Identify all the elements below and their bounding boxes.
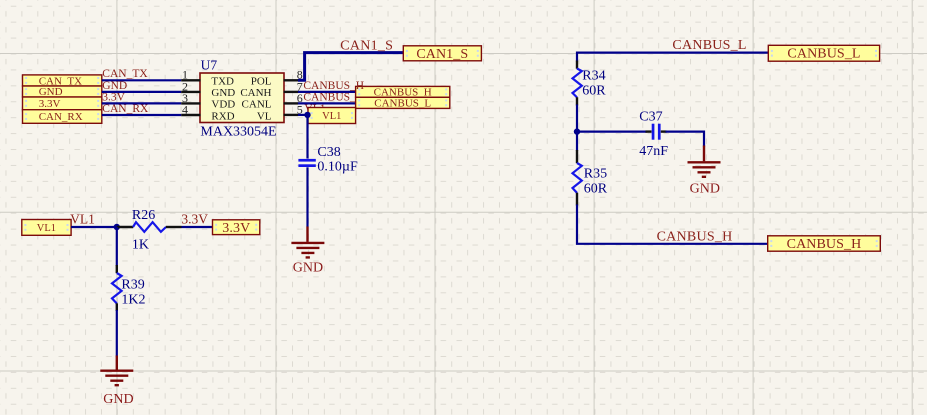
svg-text:CANBUS_L: CANBUS_L [787, 47, 860, 62]
svg-text:3.3V: 3.3V [222, 221, 250, 236]
wire C38 to ground [306, 167, 308, 227]
svg-text:CANBUS_L: CANBUS_L [374, 98, 431, 110]
junction node split [574, 128, 580, 134]
wire R39 to ground [116, 310, 118, 357]
svg-text:60R: 60R [584, 182, 608, 197]
svg-text:R26: R26 [132, 208, 155, 223]
wire R34 to junction [576, 105, 578, 132]
wire junction to R35 [576, 132, 578, 151]
svg-text:3.3V: 3.3V [102, 91, 125, 103]
svg-text:CANL: CANL [242, 99, 272, 111]
port CAN1_S [403, 46, 481, 62]
capacitor C37 [646, 124, 667, 140]
svg-text:VL: VL [257, 110, 272, 122]
svg-text:U7: U7 [201, 58, 218, 73]
wire net GND to pin 2 [102, 91, 181, 93]
port VL1 bottom left [22, 220, 71, 236]
resistor R35 [573, 150, 582, 206]
svg-text:GND: GND [103, 392, 133, 407]
port CAN_RX [23, 110, 102, 124]
port VL1 mid [308, 108, 356, 124]
wire C37 to ground [666, 132, 705, 147]
pin 3 stub VDD [181, 102, 200, 104]
svg-text:MAX33054E: MAX33054E [200, 124, 276, 139]
wire R26 to port 3.3V [182, 226, 213, 228]
wire net CAN_RX to pin 4 [102, 114, 181, 116]
svg-text:1K: 1K [132, 238, 149, 253]
svg-text:VL1: VL1 [37, 223, 56, 234]
wire pin 7 CANH to port [298, 91, 356, 93]
svg-text:CANBUS_L: CANBUS_L [303, 92, 362, 104]
junction node VL1/R26/R39 [114, 224, 120, 230]
ground below C38 [291, 227, 324, 258]
svg-text:CAN_RX: CAN_RX [39, 111, 83, 123]
pin 7 stub CANH [284, 91, 299, 93]
svg-text:C37: C37 [639, 110, 662, 125]
ground below C37 [688, 146, 721, 177]
wire junction to C37 [577, 131, 647, 133]
pin 5 stub VL [284, 114, 299, 116]
svg-text:TXD: TXD [211, 76, 234, 88]
wire net 3.3V to pin 3 [102, 102, 181, 104]
svg-text:CAN_RX: CAN_RX [102, 103, 149, 115]
svg-text:47nF: 47nF [639, 144, 668, 159]
svg-text:CAN1_S: CAN1_S [416, 47, 468, 62]
svg-text:CAN_TX: CAN_TX [102, 68, 148, 80]
pin 8 stub POL [284, 79, 299, 81]
svg-text:CANBUS_H: CANBUS_H [657, 229, 733, 244]
svg-text:4: 4 [182, 102, 188, 116]
wire VL junction down to C38 [306, 115, 308, 159]
wire CANBUS_L top [577, 53, 768, 62]
svg-text:CANBUS_H: CANBUS_H [303, 80, 364, 92]
svg-text:POL: POL [251, 76, 272, 88]
ground below R39 [100, 356, 133, 386]
svg-text:GND: GND [293, 260, 323, 275]
svg-text:RXD: RXD [211, 110, 234, 122]
port GND [23, 86, 102, 98]
svg-text:0.10µF: 0.10µF [317, 160, 358, 175]
svg-text:3.3V: 3.3V [181, 211, 208, 226]
svg-text:CANH: CANH [240, 87, 271, 99]
svg-text:VDD: VDD [211, 99, 235, 111]
svg-text:GND: GND [690, 182, 720, 197]
wire pin 6 CANL to port [298, 102, 356, 104]
svg-text:GND: GND [102, 80, 127, 92]
port CANBUS_L right [768, 45, 879, 61]
capacitor C38 [298, 159, 315, 167]
resistor R39 [112, 265, 122, 311]
svg-text:CANBUS_H: CANBUS_H [787, 237, 862, 252]
svg-text:R35: R35 [584, 166, 607, 181]
port CANBUS_H right [768, 236, 881, 252]
svg-text:CANBUS_L: CANBUS_L [672, 38, 746, 53]
wire junction down to R39 [116, 227, 118, 266]
pin 1 stub TXD [181, 79, 200, 81]
resistor R34 [573, 61, 582, 106]
port 3.3V bottom [213, 220, 260, 236]
wire pin 5 VL [298, 114, 308, 116]
pin 4 stub RXD [181, 114, 200, 116]
port 3.3V [23, 97, 102, 110]
port CAN_TX [23, 75, 102, 87]
svg-text:VL1: VL1 [322, 111, 341, 122]
port CANBUS_H mid [356, 86, 450, 98]
pin 2 stub GND [181, 91, 200, 93]
svg-text:GND: GND [211, 87, 235, 99]
svg-text:R34: R34 [582, 68, 605, 83]
wire pin 8 to port CAN1_S [298, 53, 403, 81]
junction node VL [304, 112, 310, 118]
port CANBUS_L mid [356, 97, 450, 109]
pin 6 stub CANL [284, 102, 299, 104]
wire R35 to port CANBUS_H [577, 205, 768, 244]
resistor R26 [117, 222, 182, 232]
svg-text:C38: C38 [317, 145, 340, 160]
svg-text:R39: R39 [121, 278, 144, 293]
wire net CAN_TX to pin 1 [102, 79, 181, 81]
svg-text:VL1: VL1 [70, 211, 95, 226]
op-amp U1: transceiver IC U7 body [200, 73, 284, 123]
svg-text:1K2: 1K2 [121, 293, 145, 308]
wire VL1 port to junction [71, 226, 117, 228]
svg-text:60R: 60R [582, 84, 606, 99]
svg-text:3.3V: 3.3V [39, 98, 61, 110]
svg-text:CAN1_S: CAN1_S [340, 38, 393, 53]
